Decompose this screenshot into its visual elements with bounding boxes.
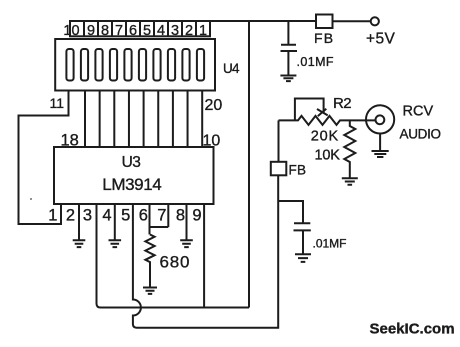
svg-text:SeekIC.com: SeekIC.com	[370, 321, 455, 338]
svg-text:5: 5	[143, 23, 151, 39]
IC U3 LM3914 body	[54, 147, 214, 204]
svg-text:680: 680	[160, 253, 191, 272]
pot R2 wiper loop	[295, 99, 324, 120]
svg-text:4: 4	[157, 23, 165, 39]
ferrite bead FB2	[271, 162, 287, 176]
ground for 680	[143, 288, 157, 294]
svg-text:8: 8	[101, 23, 109, 39]
display U4 pin-number header row	[70, 21, 210, 36]
svg-text:3: 3	[171, 23, 179, 39]
svg-text:18: 18	[61, 132, 79, 150]
svg-text:2: 2	[66, 207, 75, 225]
svg-text:FB: FB	[314, 30, 334, 46]
capacitor C1 .01MF	[281, 21, 298, 75]
svg-text:FB: FB	[289, 163, 307, 178]
wire branch to C2	[279, 201, 304, 223]
svg-text:8: 8	[176, 207, 185, 225]
ground for 10K	[342, 178, 358, 185]
svg-text:2: 2	[185, 23, 193, 39]
terminal +5V	[371, 17, 379, 25]
svg-text:20: 20	[205, 97, 223, 114]
svg-text:10K: 10K	[315, 148, 341, 164]
svg-text:10: 10	[203, 133, 221, 150]
svg-text:7: 7	[157, 207, 166, 225]
ferrite bead FB1	[316, 15, 333, 29]
pot R2 wiper arrowhead	[317, 109, 328, 116]
svg-text:1: 1	[199, 23, 207, 39]
ground for jack	[372, 151, 389, 157]
jack inner pin	[376, 115, 385, 124]
potentiometer R2 20K zigzag	[279, 116, 376, 125]
svg-text:RCV: RCV	[403, 104, 434, 120]
svg-text:10: 10	[63, 23, 79, 39]
ground pin 4	[109, 240, 122, 247]
U3 pin stubs 1-9	[79, 204, 204, 308]
wire bus U4 to U3 (9 lines)	[85, 91, 202, 148]
wire +5V rail top	[210, 20, 371, 22]
svg-text:+5V: +5V	[366, 30, 395, 47]
wire FB2 to pot junction	[278, 120, 280, 161]
ground for C1	[280, 76, 296, 82]
bargraph display U4 body	[55, 39, 215, 91]
svg-text:9: 9	[87, 23, 95, 39]
wire pin6-pin7 join	[150, 226, 169, 228]
svg-text:R2: R2	[333, 95, 351, 112]
svg-text:LM3914: LM3914	[102, 175, 161, 194]
wire pin5 with hop over line A, to line B, up to FB2	[133, 176, 278, 328]
svg-text:6: 6	[139, 207, 148, 225]
svg-text:7: 7	[115, 23, 123, 39]
wire U4 pin11 to U3 pin1	[19, 91, 69, 225]
resistor 10K	[344, 120, 355, 177]
wire jack to ground	[379, 134, 381, 151]
capacitor C2 .01MF	[294, 223, 311, 253]
svg-text:3: 3	[83, 207, 92, 225]
stray dot	[30, 198, 32, 200]
svg-text:4: 4	[102, 207, 111, 225]
svg-text:20K: 20K	[311, 129, 339, 145]
svg-text:U4: U4	[223, 61, 240, 76]
svg-text:6: 6	[129, 23, 137, 39]
wire V+ vertical from rail to bottom bus	[248, 21, 250, 308]
ground pin 8	[180, 240, 193, 247]
svg-text:.01MF: .01MF	[313, 237, 347, 251]
U3 bottom pin numbers 1..9	[48, 207, 201, 225]
ground pin 2	[73, 240, 86, 247]
wire bus bottom line A (pin3, pin9 to V+ vertical)	[100, 307, 249, 309]
svg-text:11: 11	[50, 95, 65, 111]
pin numbers header 10..1	[63, 23, 207, 39]
svg-text:.01MF: .01MF	[297, 55, 334, 69]
svg-text:9: 9	[192, 207, 201, 225]
LED bar segments of U4	[66, 49, 204, 81]
resistor 680	[145, 235, 154, 288]
svg-text:U3: U3	[122, 154, 141, 171]
svg-text:5: 5	[121, 207, 130, 225]
ground for C2	[295, 254, 311, 262]
svg-text:AUDIO: AUDIO	[400, 127, 441, 142]
svg-text:1: 1	[48, 207, 57, 225]
jack RCV AUDIO outer	[366, 105, 394, 133]
